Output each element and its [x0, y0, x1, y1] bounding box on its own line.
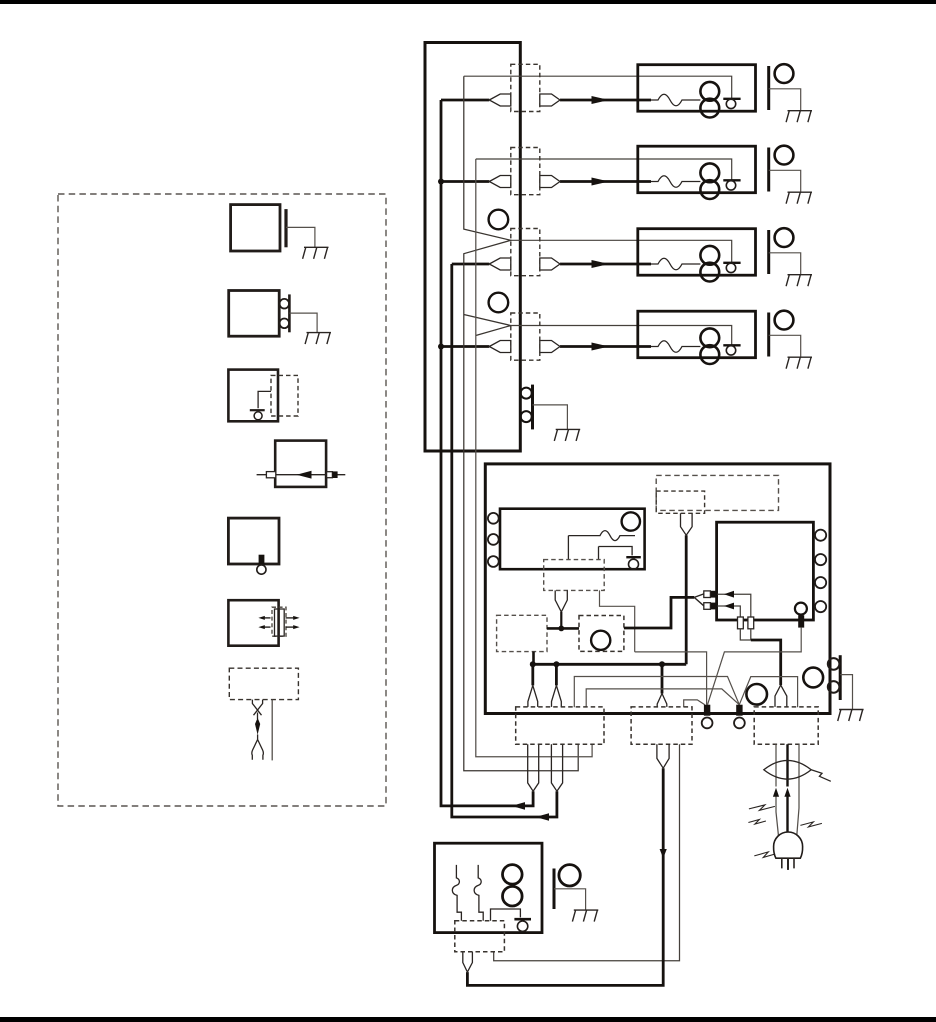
crimp terminal right row4 [540, 341, 560, 353]
terminal bar row1 [723, 98, 740, 100]
wire left connector pin1 to terminal T2 [574, 677, 739, 708]
thermal fuse row4 [651, 341, 700, 353]
fuse 1 [738, 617, 744, 629]
door switch circle bottom of main box [746, 684, 767, 705]
cord wire left [776, 744, 779, 838]
thermal fuse row2 [651, 176, 700, 188]
wire T1 thin: row1 feed down with zigzags to connectors 3,4 then to bottom connector pin [464, 76, 578, 771]
buzzer circle in display board [622, 512, 640, 530]
legend symbol 5 terminal circle [257, 565, 266, 574]
terminal bar row3 [723, 262, 740, 264]
node junction dot row4 [438, 344, 444, 350]
chassis terminal bar row2 [767, 148, 770, 192]
crimp splice below display connector [555, 590, 567, 612]
pump dashed module box [579, 616, 624, 652]
heater box row3 [638, 229, 756, 276]
wire row2 flow arrow [592, 178, 610, 186]
legend symbol 3 box [228, 370, 278, 422]
ground row1 [786, 111, 812, 123]
wire arrow toward V2 [536, 813, 550, 821]
wire row4 thick power line [560, 345, 651, 348]
inline connector lower black square [711, 603, 718, 610]
door terminal bar [514, 918, 531, 921]
top dashed module box [656, 475, 778, 510]
legend symbol 2 wire [289, 313, 317, 333]
main control board tall box [425, 43, 520, 452]
cord wire middle thick [786, 744, 788, 838]
ground row2 [786, 192, 812, 204]
display board box [500, 509, 645, 570]
motor coil circles row1 [700, 82, 719, 101]
terminal circle row3 [726, 263, 735, 272]
wire row1 thick [441, 99, 489, 102]
legend symbol 3 terminal circle [254, 412, 262, 420]
door unit connector dashed [455, 921, 505, 952]
wire lower inline to fuse 1 [717, 606, 740, 617]
wire V1 thick vertical from row1 down to bottom left connector [441, 100, 533, 806]
legend symbol 4 right white square [327, 472, 333, 478]
chassis terminal bar row3 [767, 230, 770, 274]
wire arrow upper [724, 591, 734, 598]
board edge circles left of display board [488, 513, 499, 524]
wire bus drop 2 with crimp into left bottom connector [555, 664, 558, 685]
terminal circle row4 [726, 346, 735, 355]
ground wire row2 [769, 170, 801, 192]
door motor coil circles [503, 865, 523, 885]
main terminal block circles [828, 658, 840, 670]
legend symbol 5 box [228, 518, 279, 564]
terminal T2 circle [734, 718, 745, 729]
crimp terminal left row1 [489, 94, 511, 106]
top dashed connector [656, 491, 704, 513]
wire left connector pin2 to terminal T2 [586, 689, 739, 707]
plug prongs [782, 858, 794, 868]
crimp splice B below V2 [551, 744, 562, 791]
legend symbol 2 box [229, 291, 280, 337]
crimp terminal left row3 [489, 258, 511, 270]
connector 4 dashed [511, 313, 540, 360]
thermostat switch 1 [452, 865, 461, 921]
legend symbol 4 direction arrow [297, 471, 312, 479]
left dashed module box [497, 615, 547, 651]
wire row4 thin sense line [511, 326, 732, 346]
pin wires into display connector [568, 536, 598, 560]
relay board black stub terminal [798, 615, 804, 627]
wire terminal line to relay stub [635, 652, 707, 705]
relay coil circle in relay board [795, 603, 807, 615]
terminal circle in display board [629, 559, 639, 569]
board edge terminal circles bottom of tall box [521, 388, 532, 399]
wire middle connector pin to terminal T1 [684, 700, 705, 707]
pilot circle above connector 3 [489, 210, 509, 230]
power plug body [774, 832, 803, 858]
heater box row2 [638, 146, 756, 193]
motor coil circles row2 [700, 163, 719, 182]
chassis terminal circle row3 [775, 228, 794, 247]
legend symbol 4 right black square [332, 471, 337, 478]
door terminal circle [517, 921, 527, 931]
inline connector upper black square [711, 591, 718, 598]
legend symbol 3 dashed connector [271, 375, 298, 416]
wire bus drop 3 with crimp into middle bottom connector [661, 664, 664, 693]
chassis terminal circle row2 [775, 146, 794, 165]
wire row2 thin sense line [476, 159, 732, 180]
wire thick middle connector to door unit [467, 768, 663, 985]
heater box row4 [638, 311, 756, 358]
legend symbol 4 through wire [257, 474, 346, 476]
wire row1 thin sense line [464, 76, 732, 99]
pump circle [591, 631, 610, 650]
wire pump module to relay box fork [624, 597, 694, 628]
main unit box [485, 464, 830, 714]
terminal T2 black stub [736, 705, 742, 716]
ground wire row4 [769, 335, 801, 357]
door unit box [435, 843, 543, 932]
legend symbol 4 box [275, 441, 326, 487]
legend symbol 2 contact circles [280, 299, 290, 309]
inline connector upper white square [704, 591, 711, 598]
right bottom connector dashed [754, 707, 818, 744]
ground door unit [572, 910, 598, 922]
node bus dot 1 [530, 661, 536, 667]
ground main terminal [838, 710, 864, 722]
wire bus drop 1 with crimp into left bottom connector [531, 664, 534, 685]
left bottom connector dashed [516, 707, 604, 744]
wire row1 thick power line [560, 99, 651, 102]
wire arrow lower [724, 603, 734, 610]
terminal bar bottom of tall box [531, 385, 534, 430]
legend symbol 2 ground [305, 333, 331, 345]
wire arrow toward V1 [512, 802, 526, 810]
grommet zigzag tie [811, 770, 831, 782]
node junction dot [558, 626, 564, 632]
thermostat switch 2 [474, 865, 483, 921]
door chassis terminal circle [559, 865, 580, 886]
node junction dot row2 [438, 179, 444, 185]
crimp splice below top connector [681, 513, 693, 535]
top black bar [0, 0, 936, 4]
wire T2 thin: row2 feed down to bottom connector pin [476, 159, 592, 757]
relay board box [717, 522, 814, 620]
cord wire right [797, 744, 799, 838]
internal wire to door terminal [491, 909, 521, 921]
wire arrow down [660, 849, 667, 858]
node bus dot 3 [659, 661, 665, 667]
legend symbol 7 dashed box [229, 668, 298, 699]
legend symbol 1 box [231, 205, 280, 251]
chassis terminal bar row1 [767, 66, 770, 110]
legend symbol 6 right arrows [286, 617, 296, 619]
legend symbol 1 terminal bar [284, 209, 287, 247]
chassis terminal circle row4 [775, 311, 794, 330]
fuse 2 [748, 617, 754, 629]
connector 1 dashed [511, 64, 540, 111]
middle bottom connector dashed [631, 707, 692, 744]
connector 3 dashed [511, 229, 540, 276]
crimp terminal right row2 [540, 176, 560, 188]
chassis terminal circle row1 [775, 64, 794, 83]
cable grommet lens [764, 760, 811, 779]
ground wire main terminal [840, 675, 852, 710]
legend symbol 1 wire [286, 227, 315, 247]
wire middle connector pin down and left to door unit connector [494, 744, 680, 960]
ground below tall box terminal [554, 429, 580, 441]
wire thick from top connector to bus [685, 535, 688, 664]
terminal bar row4 [723, 344, 740, 346]
wire row4 thick [441, 345, 489, 348]
terminal T1 circle [702, 718, 713, 729]
pilot circle above connector 4 [489, 293, 509, 313]
lightning mark 2 [748, 820, 766, 825]
wire V2 thick vertical from row3 down to bottom left connector [452, 264, 557, 817]
wire thick fuses to right bottom connector [751, 640, 781, 685]
wire row3 thin sense line [511, 240, 732, 262]
legend symbol 6 small connector [272, 607, 286, 636]
wire fork to inline connectors [694, 594, 704, 606]
legend dashed border box [58, 194, 386, 806]
crimp splice below middle connector [657, 744, 669, 768]
lightning mark 1 [749, 805, 775, 811]
ground wire from tall box terminal [533, 405, 568, 430]
legend symbol 7 straight wire [271, 700, 273, 761]
inline connector lower white square [704, 603, 711, 610]
legend symbol 6 left arrows [261, 617, 271, 619]
wire left module to pump module [547, 627, 579, 630]
wire row3 thick power line [560, 263, 651, 266]
wire left module to bus [532, 652, 535, 665]
legend symbol 7 splice symbol [252, 700, 262, 719]
ground wire row3 [769, 253, 801, 275]
terminal circle row1 [726, 99, 735, 108]
terminal bar row2 [723, 179, 740, 181]
crimp terminal left row4 [489, 341, 511, 353]
motor coil circles row3 [700, 246, 719, 265]
legend symbol 4 left inline lug [266, 472, 275, 478]
wire display connector pin to terminal block [600, 590, 635, 652]
crimp terminal right row1 [540, 94, 560, 106]
terminal circle row2 [726, 181, 735, 190]
wire row2 thick power line [560, 180, 651, 183]
cord flow arrow middle [784, 788, 790, 797]
legend symbol 1 ground [303, 247, 329, 258]
lightning mark 3 [800, 822, 822, 827]
connector 2 dashed [511, 148, 540, 195]
thermal fuse wire in display board [568, 531, 635, 541]
crimp terminal right row3 [540, 258, 560, 270]
wire row3 thick [452, 263, 490, 266]
legend symbol 6 box [228, 600, 278, 646]
wire row1 flow arrow [592, 96, 610, 104]
legend symbol 5 black stub terminal [259, 555, 265, 565]
ground row3 [786, 275, 812, 287]
thermal fuse row3 [651, 258, 700, 270]
wire row2 thick [441, 180, 489, 183]
legend symbol 3 capacitor bar [250, 409, 265, 411]
thermal fuse row1 [651, 94, 700, 106]
crimp splice below door unit connector [463, 952, 473, 972]
cord flow arrow left [773, 788, 779, 797]
node bus dot 2 [553, 661, 559, 667]
wire row3 flow arrow [592, 260, 610, 268]
heater box row1 [638, 65, 756, 112]
wire from display splice to relay line [560, 612, 562, 629]
internal wire to terminal in display board [599, 547, 633, 556]
chassis terminal bar row4 [767, 313, 770, 357]
wire upper inline to fuse 2 [717, 594, 750, 617]
terminal bar in display board [626, 556, 641, 558]
legend symbol 2 terminal bar [288, 294, 291, 332]
legend symbol 3 internal wire [258, 391, 271, 408]
ground row4 [786, 357, 812, 369]
motor coil circles row4 [700, 328, 719, 347]
door chassis terminal bar [553, 869, 556, 910]
wire terminal T2 to right bottom connector [739, 677, 797, 708]
lightning mark 4 [754, 852, 777, 858]
board edge circles right of relay board [815, 530, 826, 541]
display board connector dashed [544, 560, 605, 591]
crimp splice A below V1 [528, 744, 539, 791]
crimp splice above right bottom connector [775, 685, 787, 707]
bottom black bar [0, 1017, 936, 1022]
terminal T1 black stub [704, 705, 710, 716]
aux circle right area of main box [803, 668, 823, 688]
ground wire door unit [554, 889, 586, 910]
power bus thick horizontal [533, 663, 686, 666]
wire diagonal terminal T1 to relay stub [708, 628, 802, 705]
crimp terminal left row2 [489, 176, 511, 188]
wire below fuses joining [740, 629, 751, 640]
main terminal block bar right of main box [839, 655, 842, 700]
ground wire row1 [769, 89, 801, 111]
wire row4 flow arrow [592, 343, 610, 351]
